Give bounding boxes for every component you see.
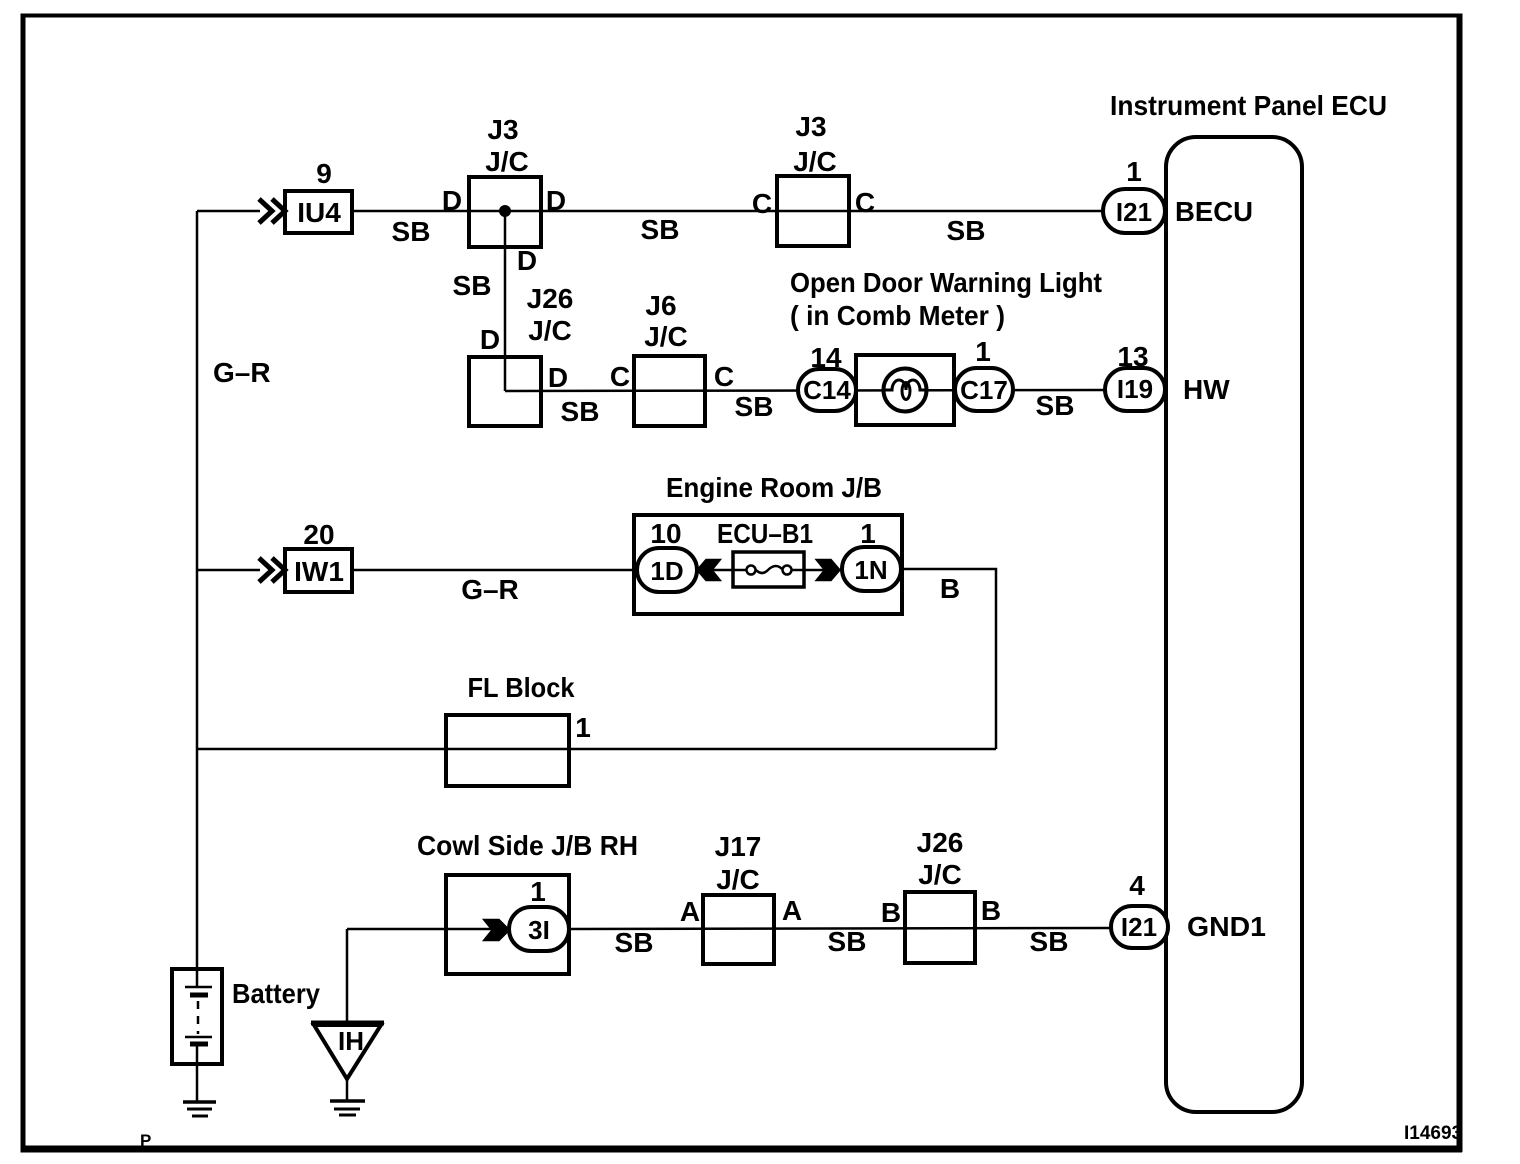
svg-text:J26: J26 bbox=[527, 283, 574, 314]
junction J26 (first) bbox=[469, 357, 541, 426]
svg-text:Engine Room J/B: Engine Room J/B bbox=[666, 472, 882, 503]
svg-text:J6: J6 bbox=[645, 290, 676, 321]
svg-text:SB: SB bbox=[947, 215, 986, 246]
arrow into IU4 bbox=[259, 199, 285, 223]
svg-text:14: 14 bbox=[810, 342, 842, 373]
arrow to 3I bbox=[484, 920, 510, 941]
svg-text:SB: SB bbox=[735, 391, 774, 422]
arrow into IW1 bbox=[259, 558, 285, 582]
ground under IH bbox=[330, 1099, 365, 1103]
svg-text:Cowl Side J/B RH: Cowl Side J/B RH bbox=[417, 830, 638, 861]
Cowl Side J/B RH block bbox=[446, 875, 569, 974]
svg-text:( in Comb Meter ): ( in Comb Meter ) bbox=[790, 300, 1005, 331]
svg-text:C: C bbox=[855, 187, 875, 218]
wire battery bottom bbox=[196, 1044, 199, 1102]
wire: down to IH ground bbox=[346, 929, 349, 1023]
wire: fuse to 1N bbox=[789, 569, 843, 572]
svg-text:I14693: I14693 bbox=[1404, 1123, 1462, 1144]
svg-text:I19: I19 bbox=[1117, 374, 1153, 404]
svg-text:SB: SB bbox=[828, 926, 867, 957]
svg-text:IH: IH bbox=[338, 1026, 364, 1056]
svg-text:13: 13 bbox=[1117, 341, 1148, 372]
battery dashed center bbox=[197, 1001, 200, 1034]
svg-text:1N: 1N bbox=[854, 555, 887, 585]
junction dot in J3 bbox=[499, 205, 511, 217]
svg-text:3I: 3I bbox=[528, 915, 550, 945]
svg-text:J/C: J/C bbox=[485, 146, 529, 177]
svg-text:SB: SB bbox=[1030, 926, 1069, 957]
svg-text:9: 9 bbox=[316, 158, 332, 189]
wire: vertical SB from J3 junction dot down to J26 bbox=[504, 211, 507, 391]
wire: IU4 to J3 to J3 to I21 (SB) bbox=[352, 210, 1104, 213]
svg-text:C14: C14 bbox=[803, 375, 851, 405]
svg-text:J/C: J/C bbox=[793, 146, 837, 177]
svg-text:BECU: BECU bbox=[1175, 196, 1253, 227]
battery plate long bottom bbox=[185, 1036, 212, 1039]
svg-text:J17: J17 bbox=[715, 831, 762, 862]
wire: 1D to fuse bbox=[694, 569, 748, 572]
connector I21 pin 4 (GND1) bbox=[1111, 906, 1168, 948]
ECU connector shell: Instrument Panel ECU bbox=[1166, 137, 1302, 1112]
connector IW1 pin 20 bbox=[285, 549, 352, 592]
svg-text:ECU–B1: ECU–B1 bbox=[717, 518, 813, 549]
FL Block bbox=[446, 715, 569, 786]
svg-text:D: D bbox=[517, 245, 537, 276]
svg-text:Instrument Panel ECU: Instrument Panel ECU bbox=[1110, 90, 1387, 121]
wire: J26 to J6 to C14 lamp row (SB) bbox=[505, 390, 1105, 391]
svg-text:J/C: J/C bbox=[528, 315, 572, 346]
svg-text:HW: HW bbox=[1183, 374, 1230, 405]
junction J3 (second) bbox=[777, 176, 849, 246]
connector I21 pin 1 (BECU) bbox=[1103, 189, 1165, 233]
svg-text:1: 1 bbox=[975, 336, 991, 367]
svg-text:D: D bbox=[546, 185, 566, 216]
svg-text:A: A bbox=[680, 896, 700, 927]
svg-text:C: C bbox=[752, 188, 772, 219]
svg-text:C: C bbox=[714, 361, 734, 392]
connector 1D bbox=[637, 548, 697, 592]
svg-text:I21: I21 bbox=[1121, 912, 1157, 942]
svg-text:1: 1 bbox=[575, 712, 591, 743]
battery B1 bbox=[172, 969, 222, 1064]
junction J17 bbox=[703, 895, 774, 964]
svg-text:10: 10 bbox=[650, 518, 681, 549]
arrow to 1N bbox=[816, 560, 840, 581]
junction J6 bbox=[634, 356, 705, 426]
ground under battery bbox=[183, 1100, 216, 1104]
svg-text:1: 1 bbox=[860, 518, 876, 549]
svg-text:B: B bbox=[881, 897, 901, 928]
svg-text:P: P bbox=[140, 1131, 151, 1150]
connector C14 pin 14 bbox=[798, 369, 856, 411]
wire: FL Block row bbox=[197, 748, 996, 751]
wire IH apex to ground bbox=[346, 1077, 349, 1101]
wire: left vertical G-R bus from IU4 row down to battery bbox=[196, 211, 199, 987]
svg-text:SB: SB bbox=[453, 270, 492, 301]
connector 1N bbox=[842, 547, 901, 591]
svg-text:B: B bbox=[981, 895, 1001, 926]
border frame bbox=[21, 14, 1463, 18]
connector C17 pin 1 bbox=[955, 368, 1013, 411]
svg-text:G–R: G–R bbox=[213, 357, 271, 388]
wire: IW1 stub bbox=[197, 569, 260, 572]
svg-text:SB: SB bbox=[641, 214, 680, 245]
junction J3 (first) bbox=[469, 177, 541, 247]
wire: 1N right then down (B) bbox=[901, 569, 996, 749]
svg-text:1D: 1D bbox=[650, 556, 683, 586]
junction J26 (second) bbox=[905, 892, 975, 963]
svg-text:C17: C17 bbox=[960, 375, 1008, 405]
svg-text:C: C bbox=[610, 361, 630, 392]
battery plate short top bbox=[190, 993, 208, 998]
svg-text:Open Door Warning Light: Open Door Warning Light bbox=[790, 267, 1102, 298]
ground point IH bbox=[311, 1021, 384, 1026]
battery plate short bottom bbox=[190, 1042, 208, 1047]
svg-text:FL Block: FL Block bbox=[468, 672, 575, 703]
svg-text:D: D bbox=[548, 362, 568, 393]
svg-text:1: 1 bbox=[1126, 156, 1142, 187]
svg-text:GND1: GND1 bbox=[1187, 911, 1266, 942]
connector I19 pin 13 (HW) bbox=[1105, 368, 1165, 411]
svg-text:J/C: J/C bbox=[918, 859, 962, 890]
svg-text:Battery: Battery bbox=[232, 978, 320, 1009]
svg-text:D: D bbox=[480, 324, 500, 355]
svg-text:SB: SB bbox=[1036, 390, 1075, 421]
lamp: Open Door Warning Light bulb box bbox=[856, 355, 954, 425]
svg-text:J/C: J/C bbox=[716, 864, 760, 895]
svg-text:4: 4 bbox=[1129, 870, 1145, 901]
svg-text:IW1: IW1 bbox=[294, 556, 344, 587]
Engine Room J/B block bbox=[634, 515, 902, 614]
fuse ECU-B1 bbox=[733, 552, 804, 587]
connector 3I bbox=[509, 907, 569, 951]
svg-text:G–R: G–R bbox=[461, 574, 519, 605]
svg-text:SB: SB bbox=[615, 927, 654, 958]
arrow to 1D bbox=[697, 560, 721, 581]
svg-text:D: D bbox=[442, 185, 462, 216]
wire: into Cowl Side J/B 3I bbox=[347, 928, 510, 931]
svg-text:B: B bbox=[940, 573, 960, 604]
svg-text:J/C: J/C bbox=[644, 321, 688, 352]
svg-text:SB: SB bbox=[561, 396, 600, 427]
svg-text:J26: J26 bbox=[917, 827, 964, 858]
svg-text:I21: I21 bbox=[1116, 197, 1152, 227]
svg-text:1: 1 bbox=[530, 876, 546, 907]
svg-text:J3: J3 bbox=[487, 114, 518, 145]
svg-text:SB: SB bbox=[392, 216, 431, 247]
connector IU4 pin 9 bbox=[285, 191, 352, 233]
battery plate long top bbox=[185, 986, 212, 989]
svg-text:J3: J3 bbox=[795, 111, 826, 142]
wire: 3I to J17 to J26 to I21 GND (SB) bbox=[569, 928, 1112, 929]
svg-text:IU4: IU4 bbox=[297, 197, 341, 228]
svg-text:A: A bbox=[782, 895, 802, 926]
svg-text:20: 20 bbox=[303, 519, 334, 550]
wire: stub into IU4 arrows bbox=[197, 210, 260, 213]
bulb bbox=[884, 369, 927, 412]
wire: IW1 to Engine Room J/B (G-R) bbox=[352, 569, 637, 572]
